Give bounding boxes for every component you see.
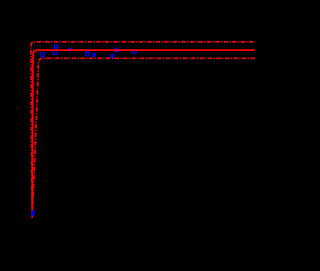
marker: open square (55.0,52.6) (53, 51, 57, 55)
marker: filled square (94.0,55.0) (92, 53, 96, 57)
marker: open square (116.3,49.9) (115, 48, 118, 51)
marker: open square (42.4,54.6) (41, 53, 45, 57)
curve: mean (solid red) (32, 50, 254, 218)
marker: filled square (112.0,56.0) (110, 54, 114, 58)
marker: open circle (87.3,53.8) (85, 52, 89, 56)
marker: bottom start point (blue blob at 32.8,213) (31, 210, 34, 216)
marker: open circle (134.3,51.8) (132, 50, 136, 54)
curve: lower confidence bound (dash-dot red) (32, 58, 255, 215)
marker: open circle (56.1,46.6) (54, 45, 58, 49)
marker: filled triangle-down (69.8,50.0) (68, 48, 73, 53)
curve: upper confidence bound (dash-dot red) (31, 42, 254, 216)
